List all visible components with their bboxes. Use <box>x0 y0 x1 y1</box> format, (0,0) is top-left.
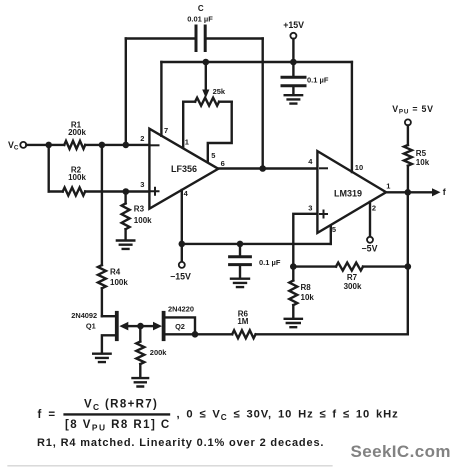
comparator U2 LM319 <box>317 151 386 233</box>
svg-text:5: 5 <box>332 225 336 234</box>
svg-text:SeekIC.com: SeekIC.com <box>351 442 451 461</box>
svg-text:2: 2 <box>372 203 376 212</box>
svg-text:[8 VPU R8 R1] C: [8 VPU R8 R1] C <box>65 419 171 433</box>
wire - pot left end to pin 1 <box>182 102 184 149</box>
capacitor C 0.01uF <box>196 26 205 51</box>
pin 2 lead to -5V <box>369 202 371 237</box>
transistor Q2 2N4220 JFET <box>141 313 196 339</box>
op-amp U1 LF356 <box>149 129 218 209</box>
wire - R1 to pin 2 <box>85 144 149 146</box>
junction dot - pot wiper on rail <box>203 59 210 66</box>
svg-text:300k: 300k <box>344 282 362 291</box>
svg-text:R8: R8 <box>301 283 312 292</box>
svg-text:, 0 ≤ VC ≤ 30V, 10 Hz ≤ f ≤ 10: , 0 ≤ VC ≤ 30V, 10 Hz ≤ f ≤ 10 kHz <box>177 409 399 423</box>
svg-text:200k: 200k <box>150 348 168 357</box>
resistor R7 300k <box>293 263 408 271</box>
wire - VC to junction <box>26 144 48 146</box>
svg-text:4: 4 <box>184 189 189 198</box>
resistor 200k (gate bias) <box>136 326 144 377</box>
svg-text:2: 2 <box>140 134 144 143</box>
node VC input terminal <box>8 140 26 152</box>
power +15V terminal <box>283 20 304 62</box>
svg-text:10: 10 <box>355 163 363 172</box>
resistor R1 200k <box>49 141 85 149</box>
junction dot - feedback right node <box>405 263 412 270</box>
ground - R3 <box>117 241 134 249</box>
resistor R3 100k <box>122 192 130 240</box>
svg-text:R7: R7 <box>347 273 358 282</box>
svg-text:3: 3 <box>140 180 144 189</box>
wire - LF356 output to LM319 pin 4 <box>218 167 317 169</box>
svg-text:−15V: −15V <box>170 272 191 282</box>
scan artifact bottom edge <box>8 465 332 467</box>
wire - R6 to feedback corner <box>256 267 408 335</box>
svg-text:−5V: −5V <box>362 244 378 254</box>
junction dot - R3 node at pin 3 <box>123 188 130 195</box>
svg-text:VC: VC <box>8 140 19 152</box>
junction dot - -15V node <box>179 241 186 248</box>
junction dot - integrator output node <box>259 165 266 172</box>
svg-text:1M: 1M <box>237 317 248 326</box>
resistor R4 100k <box>98 265 106 316</box>
power -5V terminal <box>362 237 378 254</box>
wire - pot wiper arrow from rail <box>202 62 209 98</box>
svg-text:200k: 200k <box>68 128 86 137</box>
junction dot - R1/R4 node <box>99 142 106 149</box>
svg-text:5: 5 <box>211 151 215 160</box>
wire - output arrow to f <box>408 188 441 196</box>
svg-text:0.1 µF: 0.1 µF <box>307 76 329 85</box>
wire - VC down to R2 <box>48 145 50 192</box>
pin 5 lead (LM319) <box>330 225 332 244</box>
resistor R6 1M <box>195 330 256 338</box>
junction dot - Q2 output corner <box>192 331 199 338</box>
svg-text:4: 4 <box>308 157 313 166</box>
ground - top bypass cap <box>285 95 302 103</box>
wire - +15V rail <box>161 61 352 63</box>
pin 10 lead (LM319 V+) <box>351 62 353 172</box>
svg-text:f: f <box>443 187 446 197</box>
ground - bottom bypass cap <box>231 279 249 287</box>
svg-text:1: 1 <box>185 138 189 147</box>
wire - R2 to pin 3 <box>85 190 149 192</box>
svg-text:25k: 25k <box>213 87 226 96</box>
svg-text:C: C <box>198 4 204 13</box>
svg-text:3: 3 <box>308 204 312 213</box>
junction dot - bypass cap node <box>237 241 244 248</box>
svg-text:+15V: +15V <box>283 20 304 30</box>
svg-text:0.1 µF: 0.1 µF <box>259 258 281 267</box>
svg-text:0.01 µF: 0.01 µF <box>187 15 213 24</box>
wire - output down to feedback node <box>407 192 409 266</box>
transistor Q1 2N4092 JFET <box>102 313 141 353</box>
capacitor 0.1uF bypass (bottom) <box>230 244 251 278</box>
svg-text:R3: R3 <box>134 205 145 214</box>
svg-text:VC (R8+R7): VC (R8+R7) <box>84 399 158 413</box>
svg-text:7: 7 <box>164 126 168 135</box>
ground - R8 <box>285 319 302 327</box>
svg-text:R5: R5 <box>416 149 427 158</box>
ground - Q1 source <box>93 354 110 362</box>
ground - 200k <box>133 378 149 386</box>
capacitor 0.1uF bypass (top) <box>282 62 305 95</box>
pin 4 lead (LF356 V-) <box>181 190 183 244</box>
node VPU terminal <box>392 104 433 125</box>
svg-text:100k: 100k <box>134 216 152 225</box>
junction dot - C feedback at pin 2 <box>123 142 130 149</box>
wire - feedback left vertical to pin 2 node <box>125 39 127 146</box>
wire - top feedback line right segment <box>205 37 263 39</box>
svg-text:VPU = 5V: VPU = 5V <box>392 104 433 116</box>
svg-text:Q2: Q2 <box>175 322 185 331</box>
junction dot - gate node <box>137 323 144 330</box>
svg-text:f =: f = <box>38 409 57 421</box>
wire - LM319 output <box>386 191 408 193</box>
junction dot - +15V on rail <box>290 59 297 66</box>
wire - -15V rail to pin 5 <box>182 243 331 245</box>
wire - pot right end to pin 5 jog <box>208 102 232 163</box>
wire - pin2 node down to R4 <box>101 145 103 265</box>
svg-text:100k: 100k <box>110 278 128 287</box>
formula line 1 <box>38 399 399 433</box>
power -15V terminal <box>170 244 191 282</box>
svg-text:6: 6 <box>221 159 225 168</box>
junction dot - hysteresis node <box>290 263 297 270</box>
resistor R8 10k <box>289 267 297 318</box>
svg-text:LF356: LF356 <box>171 164 197 174</box>
wire - feedback right vertical to output node <box>262 39 264 169</box>
wire - top feedback line left segment <box>126 37 196 39</box>
svg-text:R4: R4 <box>110 268 121 277</box>
svg-text:R1, R4 matched. Linearity 0.1%: R1, R4 matched. Linearity 0.1% over 2 de… <box>37 437 324 449</box>
svg-text:10k: 10k <box>416 158 430 167</box>
pin 7 lead (LF356 V+) <box>160 62 162 136</box>
svg-text:100k: 100k <box>68 173 86 182</box>
svg-text:10k: 10k <box>301 293 315 302</box>
svg-text:2N4092: 2N4092 <box>71 311 97 320</box>
svg-text:1: 1 <box>386 181 390 190</box>
resistor R5 10k <box>404 125 412 192</box>
potentiometer 25k body <box>183 98 232 106</box>
junction dot - VC node <box>45 142 52 149</box>
svg-text:LM319: LM319 <box>334 189 362 199</box>
svg-text:2N4220: 2N4220 <box>168 305 194 314</box>
svg-text:Q1: Q1 <box>86 322 96 331</box>
resistor R2 100k <box>49 188 85 196</box>
wire - pin 3 to hysteresis node <box>293 214 317 267</box>
junction dot - output f node <box>405 189 412 196</box>
